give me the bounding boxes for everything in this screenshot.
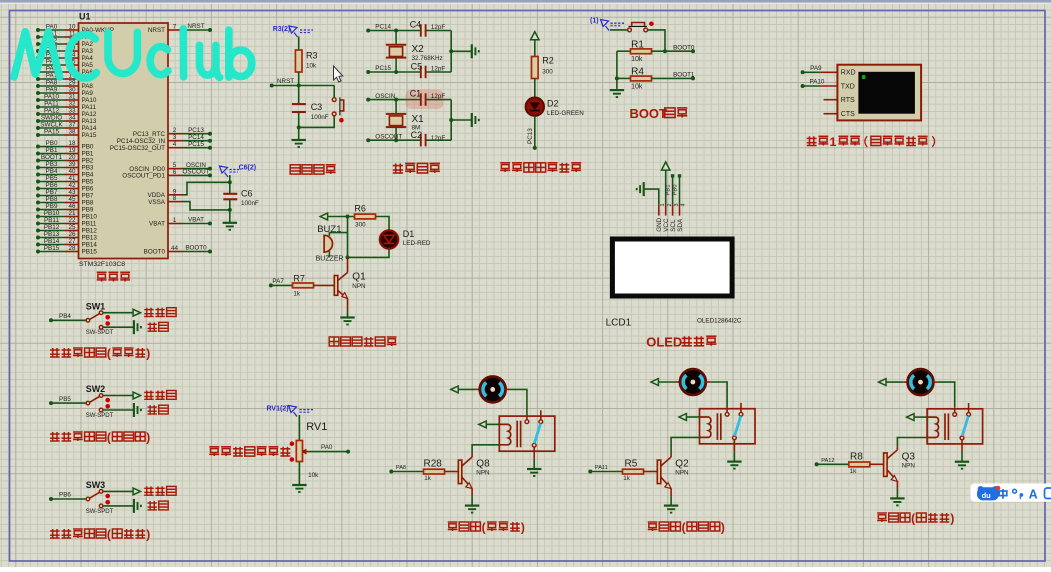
wire button top: [333, 86, 335, 98]
wire X2 top stub: [395, 31, 397, 45]
wire net PA6 to U1: [38, 71, 65, 73]
relay RL1 common contact: [526, 415, 528, 420]
svg-text:2: 2: [173, 127, 177, 134]
junction PC15/X2: [394, 70, 398, 74]
svg-text:42: 42: [68, 182, 76, 189]
wire GND pin: [644, 189, 659, 204]
buzzer top pin: [329, 233, 347, 236]
wire net PA10 to U1: [38, 99, 65, 101]
pin PC13_RTC (pin 2) of U1: [168, 133, 183, 135]
ground relay 1: [527, 468, 541, 470]
svg-text:(1): (1): [590, 17, 599, 24]
svg-text:33: 33: [68, 108, 76, 115]
pin SDA of LCD1: [679, 204, 681, 215]
label relay group 3: [877, 513, 887, 522]
power arrow alarm: [320, 213, 327, 220]
potentiometer RV1: [296, 441, 302, 462]
pin PB5 (pin 41) of U1: [65, 181, 79, 183]
ground OLED: [643, 182, 645, 196]
svg-text:PA8: PA8: [82, 83, 94, 90]
node PA10: [801, 84, 805, 88]
junction alarm bottom: [346, 255, 350, 259]
pin RTS: [824, 99, 838, 101]
svg-text:R7: R7: [293, 273, 305, 283]
svg-text:A: A: [1029, 488, 1038, 502]
label 程序运行指示灯: [500, 163, 510, 172]
wire net PB6 to U1: [38, 188, 65, 190]
pin PA15 (pin 38) of U1: [65, 134, 79, 136]
svg-text:PB12: PB12: [44, 224, 60, 231]
node BOOT0: [691, 49, 695, 53]
svg-text:37: 37: [68, 122, 76, 129]
svg-text:SW-SPDT: SW-SPDT: [86, 413, 114, 419]
svg-text:41: 41: [68, 175, 76, 182]
label 串口1窗口（模拟手机端）: [807, 136, 817, 145]
label 触发 SW2: [148, 405, 157, 414]
virtual terminal body: [837, 65, 921, 121]
pin PB7 (pin 43) of U1: [65, 195, 79, 197]
wire R3 to NRST node: [298, 72, 300, 86]
svg-text:10k: 10k: [308, 472, 319, 479]
pin PB6 (pin 42) of U1: [65, 188, 79, 190]
pin CTS: [824, 113, 838, 115]
svg-text:PB4: PB4: [59, 313, 71, 320]
svg-text:SDA: SDA: [677, 218, 684, 232]
svg-text:PA4: PA4: [82, 55, 94, 62]
svg-text:1: 1: [173, 217, 177, 224]
capacitor C4: [420, 24, 422, 37]
motor right pin 3: [933, 381, 938, 383]
pin PA10 (pin 31) of U1: [65, 99, 79, 101]
selection highlight on C1: [406, 90, 444, 110]
svg-text:X1: X1: [412, 114, 425, 125]
toggle markers SW1: [105, 315, 110, 320]
wire SW1 NO out: [103, 326, 134, 328]
pin SCL of LCD1: [672, 204, 674, 215]
svg-text:(: (: [107, 347, 111, 361]
svg-text:VSSA: VSSA: [148, 199, 166, 206]
wire net PA1 to U1: [38, 36, 65, 38]
svg-text:28: 28: [68, 245, 76, 252]
wire arrow to motor 1: [458, 388, 475, 390]
wire SW1 NC out: [103, 312, 133, 314]
wire C6 top stub: [229, 175, 231, 193]
pin PA13 (pin 34) of U1: [65, 120, 79, 122]
relay RL2 NC pin: [740, 403, 742, 413]
node NRST: [270, 84, 274, 88]
capacitor C5: [420, 66, 422, 79]
wire PA10: [803, 85, 821, 87]
svg-text:1k: 1k: [424, 475, 432, 482]
power arrow relay coil 1: [479, 421, 486, 428]
wire relay to ground 3: [961, 452, 963, 462]
wire motor to relay common 2: [710, 382, 727, 408]
label relay group 1: [448, 522, 458, 531]
Baidu IME toolbar: [971, 484, 1051, 502]
svg-text:STM32F103C8: STM32F103C8: [79, 261, 125, 268]
junction VSSA/C6: [228, 208, 232, 212]
pin PC14-OSC32_IN (pin 3) of U1: [168, 140, 183, 142]
chip label 主芯片: [97, 272, 107, 281]
svg-text:PA10: PA10: [44, 94, 59, 101]
wire Q8 emitter 1: [471, 489, 473, 497]
wire PB4 to SW1: [51, 319, 86, 321]
svg-text:PB11: PB11: [82, 221, 97, 228]
label group 2: [50, 432, 60, 441]
svg-text:CTS: CTS: [841, 111, 855, 118]
wire R1 right to BOOT0: [651, 50, 693, 52]
svg-text:PB3: PB3: [82, 165, 94, 172]
svg-text:PB2: PB2: [82, 158, 94, 165]
svg-text:Q3: Q3: [902, 451, 916, 462]
svg-text:100nF: 100nF: [241, 200, 259, 207]
wire D1 to bottom rail: [348, 249, 390, 258]
pin PB1 (pin 19) of U1: [65, 153, 79, 155]
buzzer bottom pin: [328, 251, 330, 257]
wire R2 to D2: [534, 79, 536, 98]
svg-text:29: 29: [68, 80, 76, 87]
wire net PB1 to U1: [38, 153, 65, 155]
svg-text:BUZZER: BUZZER: [316, 255, 344, 262]
pin OSCIN_PD0 (pin 5) of U1: [168, 168, 183, 170]
resistor R6: [355, 214, 376, 219]
svg-text:8: 8: [173, 195, 177, 202]
wire RV1 top: [298, 415, 300, 441]
crystal X1: [386, 113, 406, 115]
svg-text:D2: D2: [547, 99, 559, 109]
svg-text:R5: R5: [625, 459, 638, 470]
resistor R2: [532, 57, 539, 79]
wire R7 to Q1 base: [314, 284, 335, 286]
wire net PB7 to U1: [38, 195, 65, 197]
power arrow D2: [531, 32, 539, 40]
wire crystal right rail bottom: [450, 100, 452, 141]
junction button/R1: [663, 49, 667, 53]
relay RL2 common contact: [726, 408, 728, 413]
pin PA7 (pin 17) of U1: [65, 78, 79, 80]
svg-text:10k: 10k: [631, 83, 643, 90]
svg-text:SWCLK: SWCLK: [40, 122, 63, 129]
motor 1: [480, 376, 506, 402]
ground RV1: [292, 484, 306, 486]
svg-text:38: 38: [68, 129, 76, 136]
pin VBAT (pin 1) of U1: [168, 223, 183, 225]
svg-text:NRST: NRST: [148, 27, 165, 34]
node BOOT1: [691, 76, 695, 80]
svg-text:PB10: PB10: [44, 210, 60, 217]
pin PB8 (pin 45) of U1: [65, 202, 79, 204]
pin PA1 (pin 11) of U1: [65, 36, 79, 38]
svg-text:TXD: TXD: [841, 83, 855, 90]
ground side SW2: [133, 403, 135, 417]
svg-text:PA5: PA5: [82, 62, 94, 69]
svg-text:RXD: RXD: [841, 70, 856, 77]
svg-text:C1: C1: [410, 88, 422, 98]
svg-text:R8: R8: [850, 451, 863, 462]
wire net PA8 to U1: [38, 85, 65, 87]
svg-text:PC14: PC14: [375, 24, 391, 31]
switch SW3 SW-SPDT: [86, 497, 90, 501]
power arrow SW3: [133, 488, 140, 495]
wire net PB8 to U1: [38, 202, 65, 204]
wire to boot button: [610, 29, 628, 31]
svg-text:PB9: PB9: [82, 207, 94, 214]
svg-text:PB13: PB13: [82, 235, 98, 242]
wire D2 to PC13: [534, 116, 536, 148]
node PB5: [49, 401, 53, 405]
svg-text:LCD1: LCD1: [606, 318, 632, 329]
power arrow relay coil 2: [679, 414, 686, 421]
ground relay 2: [727, 461, 741, 463]
node OSCIN: [366, 98, 370, 102]
svg-text:): ): [146, 528, 150, 542]
wire net PA7 to U1: [38, 78, 65, 80]
wire X1 top stub: [395, 100, 397, 114]
wire net PB5 to U1: [38, 181, 65, 183]
svg-text:7: 7: [173, 24, 177, 31]
wire relay to ground 2: [733, 451, 735, 461]
relay RL2 coil: [700, 417, 711, 437]
wire net PB4 to U1: [38, 174, 65, 176]
svg-text:OSCOUT: OSCOUT: [375, 133, 402, 140]
svg-text:PB3: PB3: [46, 161, 58, 168]
wire C3 to ground: [298, 127, 300, 139]
relay RL2 body: [700, 409, 756, 444]
svg-text:PA9: PA9: [810, 65, 822, 72]
wire RV1 wiper to PA0: [309, 451, 348, 453]
junction R4 rail: [615, 76, 619, 80]
svg-text:PB14: PB14: [44, 238, 60, 245]
svg-text:PB5: PB5: [46, 175, 58, 182]
wire C5 right: [427, 71, 452, 73]
svg-text:BOOT0: BOOT0: [185, 245, 207, 252]
wire R to base 2: [644, 471, 658, 473]
relay RL3 coil: [927, 417, 938, 437]
svg-text:PC15: PC15: [188, 141, 204, 148]
svg-text:PA12: PA12: [44, 108, 59, 115]
svg-text:PA8: PA8: [46, 80, 58, 87]
ground side SW3: [133, 499, 135, 513]
wire net PB0 to U1: [38, 146, 65, 148]
svg-text:C6(2): C6(2): [239, 165, 257, 172]
svg-text:1k: 1k: [623, 475, 631, 482]
relay RL3 blade: [962, 416, 968, 436]
wire to ground: [229, 210, 231, 222]
wire coil top to arrow 1: [486, 423, 499, 425]
virtual terminal screen: [858, 72, 915, 114]
junction right rail bottom: [449, 118, 453, 122]
svg-text:PB4: PB4: [46, 168, 58, 175]
label 晶振电路: [393, 163, 403, 173]
relay RL1 blade: [534, 424, 540, 444]
wire net VBAT: [183, 223, 211, 225]
label relay group 2: [648, 522, 658, 531]
pin PB4 (pin 40) of U1: [65, 174, 79, 176]
capacitor C3: [292, 103, 306, 105]
wire Q1 emitter: [347, 299, 349, 311]
wire power to R2: [534, 40, 536, 57]
svg-text:4: 4: [681, 203, 687, 206]
wire net SWDIO to U1: [38, 120, 65, 122]
pin VCC of LCD1: [665, 204, 667, 215]
wire SW3 NC out: [103, 490, 133, 492]
wire RV1 bottom: [298, 462, 300, 485]
pin PB10 (pin 21) of U1: [65, 216, 79, 218]
svg-text:45: 45: [68, 196, 76, 203]
pin VDDA (pin 9) of U1: [168, 194, 183, 196]
svg-text:PB15: PB15: [44, 245, 60, 252]
capacitor C1: [420, 93, 422, 106]
junction R3/C3/NRST: [297, 84, 301, 88]
switch SW1 SW-SPDT: [86, 319, 90, 323]
svg-text:PA9: PA9: [46, 87, 58, 94]
svg-text:300: 300: [542, 69, 553, 76]
wire SW3 NO out: [103, 505, 134, 507]
svg-text:NRST: NRST: [187, 23, 204, 30]
svg-text:C3: C3: [311, 102, 323, 112]
wire Q2 emitter 2: [670, 489, 672, 497]
svg-text:PA9: PA9: [82, 90, 94, 97]
ground relay 3: [955, 461, 969, 463]
svg-text:PA12: PA12: [82, 111, 97, 118]
svg-text:PA10: PA10: [82, 97, 97, 104]
svg-text:PA3: PA3: [82, 48, 94, 55]
svg-text:): ): [721, 521, 725, 535]
wire net PA0 to U1: [38, 29, 65, 31]
wire C3 bottom: [298, 112, 300, 127]
relay RL1 NC pin: [540, 410, 542, 420]
relay RL3 common contact: [954, 408, 956, 413]
motor left pin 2: [676, 381, 681, 383]
svg-text:300: 300: [355, 221, 366, 228]
svg-text:PB11: PB11: [44, 217, 59, 224]
transistor Q2: [657, 460, 661, 484]
svg-text:18: 18: [68, 140, 76, 147]
wire R1 to R4 rail: [616, 51, 618, 89]
node PC14: [366, 29, 370, 33]
wire PB5 to SW2: [51, 402, 86, 404]
wire X1 bottom stub: [395, 127, 397, 140]
junction alarm top: [346, 215, 350, 219]
wire PA7 to R7: [271, 284, 293, 286]
svg-text:PA14: PA14: [82, 125, 97, 132]
pin PA8 (pin 29) of U1: [65, 85, 79, 87]
node PA0: [346, 450, 350, 454]
wire SCL pin: [672, 177, 674, 204]
svg-text:R4: R4: [631, 66, 644, 77]
button toggle marker boot: [649, 22, 654, 27]
svg-text:SWDIO: SWDIO: [41, 115, 62, 122]
svg-text:19: 19: [68, 147, 76, 154]
pin RXD: [820, 71, 837, 73]
svg-text:VBAT: VBAT: [188, 217, 204, 224]
svg-text:PA7: PA7: [272, 278, 284, 285]
svg-text:10: 10: [68, 24, 76, 31]
power arrow VCC: [662, 162, 670, 170]
resistor R 2: [623, 469, 644, 474]
wire C4 right: [427, 30, 452, 32]
svg-text:R3(2): R3(2): [273, 26, 291, 33]
svg-text:25: 25: [68, 224, 76, 231]
wire alarm vertical rail: [347, 217, 349, 258]
wire to side ground top: [451, 50, 471, 52]
pin PB3 (pin 39) of U1: [65, 167, 79, 169]
svg-text:22: 22: [68, 217, 76, 224]
svg-text:RTS: RTS: [841, 97, 855, 104]
svg-text:PA11: PA11: [595, 465, 608, 471]
wire net PC15: [183, 147, 211, 149]
svg-text:39: 39: [68, 161, 76, 168]
ground Q1: [340, 316, 354, 318]
wire PB6 to SW3: [51, 498, 86, 500]
display LCD1 OLED module: [610, 237, 735, 299]
wire relay to ground 1: [533, 459, 535, 469]
wire net SWCLK to U1: [38, 127, 65, 129]
wire net PA9 to U1: [38, 92, 65, 94]
svg-text:PA13: PA13: [82, 118, 97, 125]
junction right rail top: [449, 49, 453, 53]
label 复位电路: [290, 165, 300, 174]
svg-text:): ): [950, 512, 954, 526]
wire SW2 NC out: [103, 395, 133, 397]
resistor R 1: [424, 469, 445, 474]
wire Q1 collector: [347, 257, 349, 272]
svg-text:LED-GREEN: LED-GREEN: [547, 110, 584, 117]
pin TXD: [820, 85, 837, 87]
wire SW2 NO out: [103, 409, 134, 411]
power arrow motor 3: [879, 379, 886, 386]
wire net PA2 to U1: [38, 43, 65, 45]
svg-text:PC13: PC13: [527, 128, 534, 144]
wire net PA5 to U1: [38, 64, 65, 66]
svg-text:BOOT1: BOOT1: [41, 154, 63, 161]
pin PA2 (pin 12) of U1: [65, 43, 79, 45]
svg-text:PB7: PB7: [82, 193, 94, 200]
node PB6: [49, 497, 53, 501]
svg-text:31: 31: [68, 94, 76, 101]
svg-text:U1: U1: [79, 12, 91, 22]
wire R4 right to BOOT1: [651, 77, 693, 79]
node OSCOUT: [366, 138, 370, 142]
svg-text:du: du: [982, 491, 992, 500]
svg-text:NRST: NRST: [277, 78, 294, 85]
svg-text:C4: C4: [410, 19, 422, 29]
mouse cursor: [334, 66, 343, 82]
wire R to base 1: [445, 471, 459, 473]
svg-text:PB0: PB0: [82, 144, 94, 151]
relay RL1 moving contact: [532, 443, 536, 447]
svg-text:PB5: PB5: [59, 396, 71, 403]
svg-text:RV1(2): RV1(2): [267, 406, 289, 413]
ground Q3: [890, 497, 904, 499]
wire PC15: [368, 71, 420, 73]
relay RL3 NC pin: [968, 403, 970, 413]
node PA11: [588, 470, 592, 474]
pin OSCOUT_PD1 (pin 6) of U1: [168, 174, 183, 176]
svg-text:): ): [521, 521, 525, 535]
transistor Q1: [334, 276, 338, 296]
pin VSSA (pin 8) of U1: [168, 201, 183, 203]
push-button BOOT: [628, 28, 632, 32]
svg-text:PB14: PB14: [82, 242, 98, 249]
wire OSCOUT: [368, 139, 420, 141]
svg-text:1: 1: [829, 135, 836, 149]
svg-text:PC15-OSC32_OUT: PC15-OSC32_OUT: [110, 145, 165, 152]
label 未触发 SW1: [144, 308, 153, 317]
button toggle marker: [339, 118, 344, 123]
ground crystal top: [471, 44, 473, 58]
pin PB11 (pin 22) of U1: [65, 223, 79, 225]
